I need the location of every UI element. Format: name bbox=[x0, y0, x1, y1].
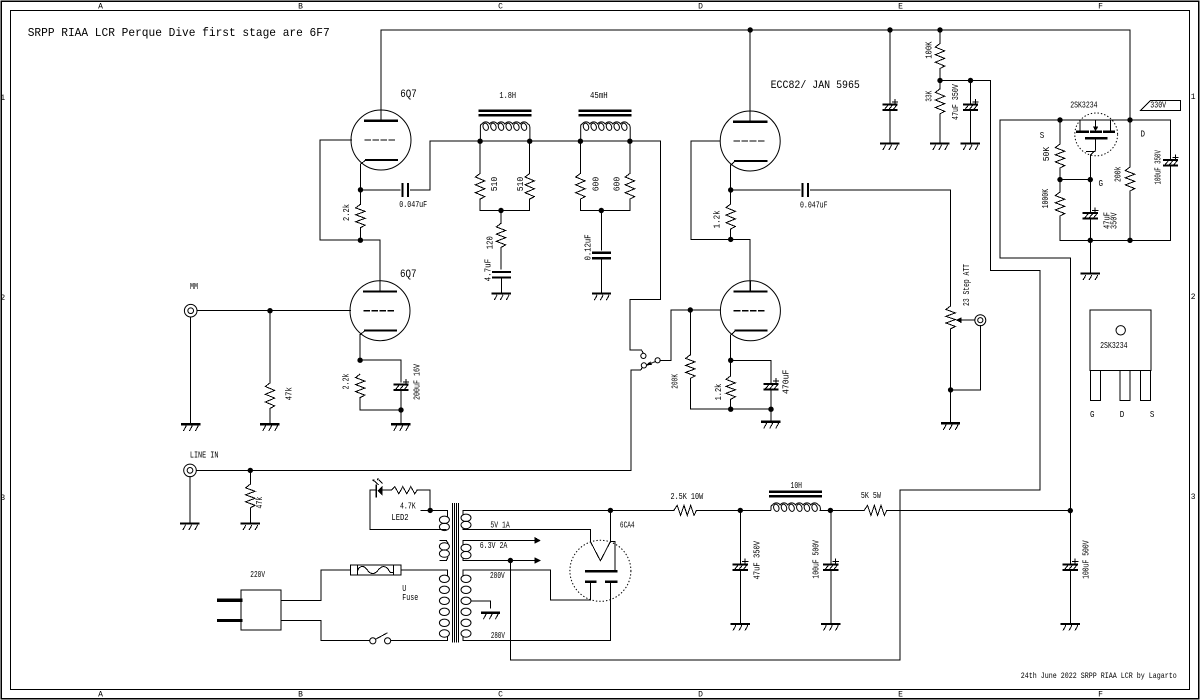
svg-text:LINE IN: LINE IN bbox=[190, 451, 219, 461]
resistor 600 right bbox=[625, 173, 634, 199]
diode LED2 bbox=[375, 485, 377, 497]
wire 4.7K to winding top bbox=[417, 490, 430, 510]
wire regulator ground stem bbox=[1089, 240, 1091, 273]
node MM input / 47k bbox=[267, 308, 272, 313]
transformer winding LED2 (left) bbox=[439, 516, 449, 523]
ground 47k MM bbox=[261, 423, 278, 425]
resistor 33K divider bbox=[935, 89, 944, 114]
svg-text:510: 510 bbox=[490, 177, 500, 192]
ground filter cap 2 bbox=[822, 623, 839, 625]
node SRPP midpoint bbox=[358, 238, 363, 243]
svg-text:S: S bbox=[1040, 131, 1045, 141]
capacitor 47uF 350V divider bypass bbox=[964, 104, 977, 106]
ground 1.8H section bbox=[493, 292, 510, 294]
tube V3 ECC82 lower bbox=[720, 281, 780, 341]
wire V1 cathode to junction bbox=[360, 164, 362, 190]
resistor 1000K bbox=[1055, 192, 1064, 216]
wire 2.5K to choke bbox=[696, 509, 770, 511]
plug 220V body bbox=[241, 590, 281, 630]
svg-text:0.12uF: 0.12uF bbox=[584, 234, 594, 260]
wire 280V bottom tap to rectifier plate bbox=[463, 583, 610, 641]
svg-text:E: E bbox=[898, 3, 903, 12]
wire cathode junction to coupling cap bbox=[361, 189, 400, 191]
node filter cap 2 bbox=[828, 508, 833, 513]
svg-text:MM: MM bbox=[190, 282, 198, 292]
wire 6.3V bottom tap bbox=[463, 560, 535, 562]
wire V4 cathode to junction bbox=[730, 165, 732, 190]
resistor 4.7K LED series bbox=[392, 487, 418, 494]
svg-text:4.7K: 4.7K bbox=[400, 502, 416, 512]
svg-text:200k: 200k bbox=[1114, 167, 1124, 183]
pot wiper arrow bbox=[961, 319, 974, 321]
ground 47k LINE IN bbox=[242, 522, 259, 524]
switch common contact bbox=[655, 358, 660, 363]
wire V1 grid from SRPP midpoint bbox=[320, 140, 360, 240]
transformer winding HV 280-0-280 (right) bbox=[461, 575, 471, 582]
transformer winding 5V 1A (right) bbox=[461, 514, 471, 521]
resistor 510 right bbox=[525, 173, 534, 199]
wire 5K to output node bbox=[887, 509, 1071, 511]
svg-text:200K: 200K bbox=[671, 374, 681, 389]
svg-text:SRPP RIAA LCR Perque Dive firs: SRPP RIAA LCR Perque Dive first stage ar… bbox=[28, 26, 330, 40]
resistor 2.2k V2 cathode bbox=[356, 374, 365, 398]
wire regulator bottom rail bbox=[1060, 239, 1171, 241]
svg-text:C: C bbox=[498, 691, 503, 700]
svg-text:Fuse: Fuse bbox=[402, 593, 418, 603]
connector MM input jack bbox=[184, 304, 197, 317]
capacitor 0.047uF output bbox=[802, 184, 804, 196]
node 600 bottom mid bbox=[599, 208, 604, 213]
wire 5V top tap to rectifier bbox=[463, 509, 611, 511]
svg-text:1000K: 1000K bbox=[1041, 188, 1051, 208]
plug prong upper bbox=[219, 599, 241, 602]
wire 600 bottom rail bbox=[580, 210, 630, 212]
resistor 2.2k V1 cathode bbox=[356, 204, 365, 227]
svg-text:280V: 280V bbox=[491, 631, 505, 641]
wire V3 cathode to junction bbox=[730, 335, 732, 360]
node V3 cathode junction bbox=[728, 358, 733, 363]
svg-text:B: B bbox=[298, 3, 303, 12]
wire plug to fuse bbox=[281, 570, 350, 600]
ground LINE IN jack bbox=[181, 522, 198, 524]
wire midpoint to V3 plate bbox=[731, 239, 751, 291]
svg-text:350V: 350V bbox=[1109, 212, 1119, 229]
switch mains pole A bbox=[370, 638, 376, 644]
svg-text:2: 2 bbox=[1191, 293, 1196, 302]
svg-text:47uF 350V: 47uF 350V bbox=[752, 540, 762, 579]
wire MM jack to V2 grid bbox=[197, 310, 350, 312]
capacitor 47uF 350V filter bbox=[734, 563, 747, 565]
resistor 200K grid leak bbox=[686, 355, 695, 379]
svg-text:24th June 2022 SRPP RIAA LCR b: 24th June 2022 SRPP RIAA LCR by Lagarto bbox=[1021, 671, 1177, 681]
ground attenuator bbox=[942, 422, 959, 424]
capacitor 0.12uF shunt bbox=[593, 252, 610, 254]
svg-text:220V: 220V bbox=[250, 570, 265, 580]
svg-text:D: D bbox=[1120, 410, 1125, 420]
node pot ground junction bbox=[948, 387, 953, 392]
node rail / 200k drain bbox=[1127, 117, 1132, 122]
svg-text:2.2k: 2.2k bbox=[342, 204, 352, 221]
6CA4 cathode bar bbox=[586, 570, 616, 573]
node divider bypass bbox=[968, 78, 973, 83]
svg-text:330V: 330V bbox=[1150, 101, 1166, 111]
svg-text:470uF: 470uF bbox=[781, 370, 791, 394]
node 470uF bottom / ground bbox=[768, 407, 773, 412]
svg-text:1: 1 bbox=[0, 94, 5, 103]
wire cathode network bottom rail bbox=[690, 408, 771, 410]
svg-text:A: A bbox=[98, 691, 103, 700]
wire V4 output to coupling cap bbox=[731, 189, 800, 191]
wire attenuator ground stem bbox=[950, 390, 952, 423]
inductor 1.8H bbox=[480, 110, 530, 113]
ground ECC82 cathode network bbox=[762, 421, 779, 423]
svg-text:6Q7: 6Q7 bbox=[400, 269, 417, 281]
wire plug to switch bbox=[281, 620, 369, 640]
wire 6.3V top tap bbox=[463, 539, 535, 541]
resistor 5K 5W bbox=[864, 505, 887, 515]
wire V4 grid loop bbox=[691, 141, 731, 239]
resistor 200k bleeder bbox=[1125, 167, 1134, 191]
wire to ground stem bbox=[400, 410, 402, 424]
capacitor 100uF 500V filter bbox=[824, 563, 837, 565]
wire midpoint to V2 plate bbox=[360, 240, 380, 291]
svg-text:1: 1 bbox=[1191, 93, 1196, 102]
capacitor 4.7uF shunt bbox=[493, 271, 510, 273]
package pin S bbox=[1140, 370, 1150, 400]
wire divider to bypass cap bbox=[940, 80, 971, 82]
svg-text:ECC82/ JAN 5965: ECC82/ JAN 5965 bbox=[771, 80, 860, 92]
wire decoupling cap to ground bbox=[889, 111, 891, 144]
wire 510 bottom rail bbox=[480, 210, 530, 212]
svg-text:33K: 33K bbox=[925, 90, 935, 101]
svg-text:47uF 350V: 47uF 350V bbox=[951, 84, 961, 120]
node rectifier B+ takeoff bbox=[608, 508, 613, 513]
node filter cap 1 bbox=[738, 508, 743, 513]
svg-text:3: 3 bbox=[0, 494, 5, 503]
node ECC82 SRPP midpoint bbox=[728, 237, 733, 242]
svg-text:D: D bbox=[698, 3, 703, 12]
node LINE IN / 47k bbox=[248, 468, 253, 473]
ground output cap bbox=[1062, 623, 1079, 625]
resistor 1.2k V3 cathode bbox=[726, 376, 735, 400]
ground regulator bbox=[1082, 272, 1099, 274]
ground decoupling cap bbox=[881, 142, 898, 144]
wire LED winding top tap bbox=[421, 509, 448, 511]
node V4 cathode / output bbox=[728, 187, 733, 192]
wire ground stem V3 bbox=[770, 409, 772, 422]
svg-text:A: A bbox=[98, 3, 103, 12]
node rail / 50K bbox=[1057, 117, 1062, 122]
wire choke to 5K bbox=[820, 509, 864, 511]
svg-text:2SK3234: 2SK3234 bbox=[1070, 100, 1097, 110]
node gate divider left bbox=[1057, 177, 1062, 182]
potentiometer 23 Step ATT bbox=[946, 306, 955, 329]
svg-text:47k: 47k bbox=[255, 497, 265, 509]
tube 6CA4 rectifier bbox=[570, 540, 631, 601]
svg-text:2SK3234: 2SK3234 bbox=[1100, 341, 1128, 351]
svg-text:2.2k: 2.2k bbox=[342, 374, 352, 390]
svg-text:50K: 50K bbox=[1042, 146, 1052, 161]
svg-text:LED2: LED2 bbox=[391, 513, 408, 523]
capacitor 47uF 350V gate bbox=[1084, 212, 1097, 214]
wire HV center tap bbox=[471, 601, 491, 608]
wire 5V bottom tap bbox=[463, 530, 590, 542]
node V3 grid bbox=[688, 307, 693, 312]
node 1.8H right bbox=[527, 139, 532, 144]
node B+ output bbox=[1068, 508, 1073, 513]
wire coupling cap to LCR rail bbox=[411, 141, 480, 190]
wire V4 plate to top rail bbox=[749, 30, 751, 122]
svg-text:S: S bbox=[1150, 410, 1155, 420]
plug prong lower bbox=[219, 619, 241, 622]
svg-text:C: C bbox=[498, 3, 503, 12]
switch mains pole B bbox=[385, 638, 391, 644]
6CA4 filament bbox=[609, 510, 611, 541]
node top rail / ECC82 plate bbox=[748, 27, 753, 32]
wire LINE IN to selector bbox=[196, 368, 642, 471]
svg-text:2: 2 bbox=[0, 294, 5, 303]
node 45mH left bbox=[578, 139, 583, 144]
transformer winding 6.3V 2A (right) bbox=[461, 544, 471, 551]
node top rail / 100K divider bbox=[937, 27, 942, 32]
wire 280V top tap to rectifier plate bbox=[463, 570, 591, 600]
svg-text:280V: 280V bbox=[490, 571, 505, 581]
capacitor 100uF 500V output bbox=[1064, 563, 1077, 565]
ground HV center tap bbox=[482, 611, 499, 613]
resistor 50K bbox=[1055, 144, 1064, 168]
wire selector common to V3 grid bbox=[660, 310, 690, 360]
wire output cap to attenuator bbox=[811, 190, 951, 306]
node bottom rail / gate cap bbox=[1088, 238, 1093, 243]
resistor 2.5K 10W bbox=[674, 505, 697, 515]
svg-text:1.2k: 1.2k bbox=[713, 210, 723, 228]
svg-text:3: 3 bbox=[1191, 493, 1196, 502]
connector LINE IN jack bbox=[184, 464, 197, 477]
svg-text:6CA4: 6CA4 bbox=[620, 520, 635, 530]
resistor 47k MM load bbox=[265, 383, 274, 409]
svg-text:0.047uF: 0.047uF bbox=[800, 200, 828, 210]
wire rectifier output to filter bbox=[610, 509, 674, 511]
svg-text:1.2k: 1.2k bbox=[714, 384, 724, 401]
capacitor 0.047uF interstage 1 bbox=[402, 184, 404, 196]
wire switch to transformer bbox=[391, 640, 448, 642]
resistor 600 left bbox=[576, 173, 585, 199]
svg-text:120: 120 bbox=[485, 236, 495, 249]
switch throw line contact bbox=[641, 363, 646, 368]
svg-text:600: 600 bbox=[613, 177, 623, 192]
wire V2 cathode to junction bbox=[359, 335, 361, 361]
node LED winding tap bbox=[428, 508, 433, 513]
svg-text:510: 510 bbox=[516, 177, 526, 192]
node top rail / decoupling cap bbox=[887, 27, 892, 32]
svg-text:23 Step ATT: 23 Step ATT bbox=[962, 264, 972, 306]
wire cathode network bottom bbox=[360, 409, 401, 411]
svg-text:5V 1A: 5V 1A bbox=[490, 520, 510, 530]
svg-text:45mH: 45mH bbox=[590, 91, 608, 101]
node bottom rail / 200k bbox=[1127, 238, 1132, 243]
capacitor B+ decoupling bbox=[883, 104, 896, 106]
switch mains lever bbox=[376, 633, 387, 639]
ground MM jack bbox=[182, 423, 199, 425]
svg-text:F: F bbox=[1098, 691, 1103, 700]
transformer winding primary 220V (left) bbox=[439, 575, 449, 582]
svg-text:G: G bbox=[1090, 410, 1095, 420]
transformer core bbox=[451, 503, 453, 642]
transformer winding spare (left) bbox=[439, 543, 449, 550]
node divider mid bbox=[937, 78, 942, 83]
inductor 10H choke bbox=[770, 491, 820, 494]
wire top B+ rail bbox=[381, 29, 1130, 31]
wire cathode junction to bypass cap bbox=[360, 360, 401, 382]
wire 4.7uF to ground bbox=[501, 278, 503, 294]
switch wiper arrow bbox=[649, 362, 656, 365]
node 1.2k bottom bbox=[728, 407, 733, 412]
svg-text:B: B bbox=[298, 691, 303, 700]
package 2SK3234 body bbox=[1090, 310, 1151, 370]
svg-text:G: G bbox=[1099, 179, 1104, 189]
svg-text:F: F bbox=[1098, 3, 1103, 12]
ground divider bypass cap bbox=[962, 142, 979, 144]
svg-text:4.7uF: 4.7uF bbox=[483, 259, 493, 282]
wire LCR input rail bbox=[480, 140, 630, 142]
wire decoupling cap from top rail bbox=[889, 30, 891, 104]
wire regulator input riser bbox=[1000, 120, 1070, 511]
switch throw phono contact bbox=[641, 353, 646, 358]
wire pot bottom bbox=[950, 329, 952, 390]
package mounting hole bbox=[1116, 326, 1125, 335]
wire fuse to transformer bbox=[401, 569, 448, 571]
wire 0.12uF to ground bbox=[601, 258, 603, 293]
svg-text:100K: 100K bbox=[925, 41, 935, 59]
wire output jack sleeve bbox=[951, 326, 981, 390]
ground 45mH section bbox=[593, 292, 610, 294]
6CA4 plate left bbox=[586, 580, 595, 583]
6CA4 plate right bbox=[606, 580, 616, 583]
svg-text:D: D bbox=[1141, 130, 1146, 140]
connector output jack bbox=[975, 315, 986, 326]
node V1 cathode junction bbox=[358, 187, 363, 192]
tube V4 ECC82 upper bbox=[720, 111, 780, 171]
resistor 120 shunt bbox=[496, 223, 505, 247]
inductor 45mH bbox=[580, 110, 630, 113]
ground filter cap 1 bbox=[732, 623, 749, 625]
svg-text:10H: 10H bbox=[791, 481, 803, 491]
svg-text:1.8H: 1.8H bbox=[499, 91, 516, 101]
svg-text:100uF 500V: 100uF 500V bbox=[811, 540, 821, 579]
transistor Q1 2SK3234 MOSFET bbox=[1075, 113, 1118, 156]
tube V1 6Q7 upper bbox=[351, 110, 411, 170]
node 1.8H left bbox=[477, 139, 482, 144]
flag 330V output bbox=[1140, 100, 1180, 110]
node bypass bottom / ground bbox=[398, 407, 403, 412]
fuse U bbox=[350, 565, 400, 575]
wire MM jack ground lead bbox=[190, 317, 192, 424]
ground 33K bbox=[931, 142, 948, 144]
svg-text:200uF 16V: 200uF 16V bbox=[412, 364, 422, 400]
resistor 510 left bbox=[475, 173, 484, 199]
tube V2 6Q7 lower bbox=[350, 281, 410, 341]
resistor 100K divider bbox=[935, 44, 944, 69]
svg-text:D: D bbox=[698, 691, 703, 700]
package pin D bbox=[1120, 370, 1130, 400]
capacitor 100uF 350V output bbox=[1164, 159, 1177, 161]
capacitor 470uF cathode bypass bbox=[764, 383, 777, 385]
wire regulator top rail bbox=[1000, 119, 1171, 121]
resistor 47k LINE IN load bbox=[246, 484, 255, 508]
svg-text:0.047uF: 0.047uF bbox=[399, 200, 427, 210]
wire V1 plate to top rail bbox=[380, 30, 382, 121]
svg-text:100uF 500V: 100uF 500V bbox=[1082, 540, 1092, 579]
node gate bbox=[1088, 177, 1093, 182]
node V2 cathode junction bbox=[357, 358, 362, 363]
wire LCR output to selector bbox=[630, 141, 661, 352]
wire top rail to regulator bbox=[1129, 30, 1131, 120]
wire heater bias net bbox=[510, 81, 1040, 661]
node 510 bottom mid bbox=[498, 208, 503, 213]
package pin G bbox=[1090, 370, 1100, 400]
resistor 1.2k V4 cathode bbox=[726, 204, 735, 229]
svg-text:E: E bbox=[898, 691, 903, 700]
svg-text:6.3V 2A: 6.3V 2A bbox=[480, 541, 508, 551]
wire LED anode loop bbox=[370, 490, 375, 530]
svg-text:6Q7: 6Q7 bbox=[400, 89, 417, 101]
wire gate node link bbox=[1060, 179, 1090, 181]
capacitor 200uF 16V cathode bypass bbox=[394, 384, 407, 386]
svg-text:2.5K 10W: 2.5K 10W bbox=[671, 492, 704, 502]
node 45mH right bbox=[627, 139, 632, 144]
svg-text:5K 5W: 5K 5W bbox=[861, 491, 881, 501]
wire LINE IN jack ground lead bbox=[189, 477, 191, 524]
wire V3 grid stub bbox=[690, 309, 720, 311]
svg-text:47k: 47k bbox=[284, 387, 294, 400]
node 6.3V heater bias bbox=[508, 558, 513, 563]
svg-text:600: 600 bbox=[592, 177, 602, 192]
svg-text:100uF 350V: 100uF 350V bbox=[1154, 150, 1164, 185]
wire V3 cathode to bypass cap bbox=[731, 360, 771, 382]
ground V2 cathode network bbox=[392, 423, 409, 425]
